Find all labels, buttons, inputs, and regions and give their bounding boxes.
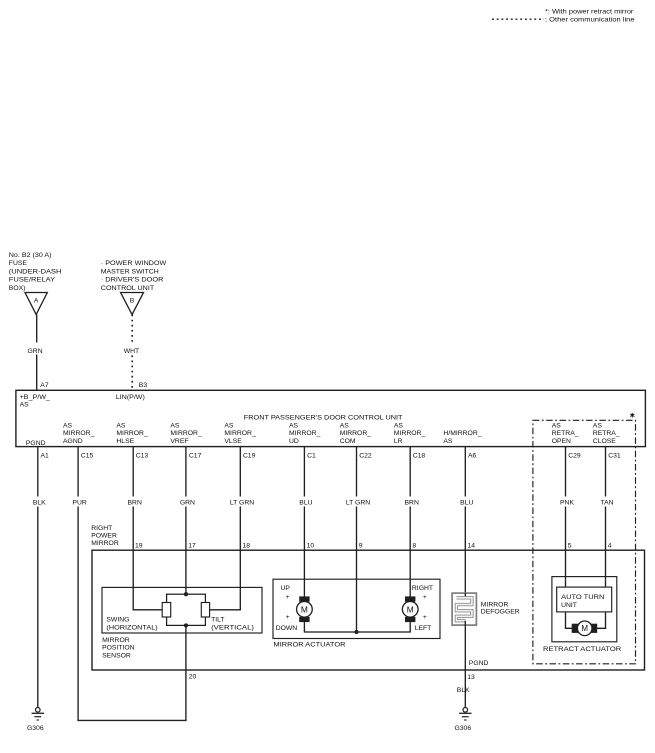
svg-text:AS: AS	[116, 423, 126, 430]
svg-text:MIRROR: MIRROR	[481, 601, 509, 608]
tilt potentiometer element	[201, 603, 209, 618]
svg-text:RIGHT: RIGHT	[412, 585, 433, 592]
svg-text:AGND: AGND	[63, 438, 83, 445]
svg-text:WHT: WHT	[124, 348, 139, 355]
wire BLU from C1 (UD) to up/down motor	[303, 447, 305, 597]
svg-text:(HORIZONTAL): (HORIZONTAL)	[106, 625, 157, 632]
connector triangle B (LIN line)	[121, 293, 144, 315]
svg-text:SENSOR: SENSOR	[102, 652, 131, 659]
svg-text:14: 14	[468, 543, 476, 550]
svg-text:LR: LR	[394, 438, 403, 445]
svg-text:GRN: GRN	[180, 500, 195, 507]
svg-text:(UNDER-DASH: (UNDER-DASH	[9, 268, 62, 275]
legend: other communication line note	[492, 18, 544, 20]
wire auto turn unit to retract motor right	[597, 612, 606, 628]
junction sensor common node	[184, 623, 188, 627]
svg-text:17: 17	[188, 543, 196, 550]
svg-text:MIRROR: MIRROR	[102, 637, 130, 644]
svg-text:A7: A7	[40, 382, 49, 389]
svg-text:CLOSE: CLOSE	[593, 438, 617, 445]
svg-text:C18: C18	[413, 453, 426, 460]
wire TAN from C31 to auto turn unit	[605, 447, 607, 587]
svg-text:B: B	[130, 297, 135, 304]
svg-text:+: +	[286, 594, 290, 601]
wire BRN from C18 (LR) to left/right motor	[409, 447, 411, 597]
right power mirror box	[92, 550, 645, 670]
retract motor M	[572, 624, 579, 633]
sensor potentiometer loop	[167, 594, 206, 625]
left/right motor M	[405, 596, 415, 601]
svg-text:MIRROR_: MIRROR_	[170, 430, 202, 437]
svg-text:UD: UD	[289, 438, 299, 445]
svg-text:FUSE: FUSE	[9, 260, 28, 267]
swing potentiometer element	[162, 603, 171, 618]
svg-text:UNIT: UNIT	[561, 602, 577, 609]
front passenger's door control unit box	[16, 390, 646, 446]
svg-text:PGND: PGND	[469, 660, 489, 667]
auto turn unit box	[557, 587, 612, 612]
junction actuator common	[354, 630, 358, 634]
connector triangle A (fuse feed)	[25, 293, 47, 315]
svg-text:BRN: BRN	[405, 500, 419, 507]
svg-text:C29: C29	[568, 453, 581, 460]
defogger heater element	[456, 598, 472, 621]
svg-text:RIGHT: RIGHT	[91, 525, 112, 532]
svg-text:C22: C22	[359, 453, 372, 460]
ground G306 (right)	[463, 708, 468, 713]
svg-text:MIRROR_: MIRROR_	[394, 430, 426, 437]
svg-text:C17: C17	[189, 453, 202, 460]
svg-text:AS: AS	[394, 423, 404, 430]
svg-text:M: M	[301, 604, 308, 614]
junction VREF node	[184, 592, 188, 596]
svg-text:*: With power retract mirror: *: With power retract mirror	[545, 9, 634, 16]
svg-text:13: 13	[467, 674, 475, 681]
svg-text:VLSE: VLSE	[224, 438, 242, 445]
svg-text:AS: AS	[224, 423, 234, 430]
wire GRN from C17 (VREF) to sensor top node	[185, 447, 187, 595]
mirror position sensor box	[102, 587, 262, 633]
svg-text:M: M	[581, 624, 588, 633]
svg-text:SWING: SWING	[106, 617, 129, 624]
svg-text:AS: AS	[593, 423, 603, 430]
retract actuator box	[552, 577, 617, 642]
svg-text:MIRROR_: MIRROR_	[116, 430, 148, 437]
svg-text:COM: COM	[340, 438, 356, 445]
wire GRN from fuse A to A7	[36, 315, 38, 391]
wire BLK from defogger through pin 13 to G306	[464, 621, 466, 708]
wire PNK from C29 to auto turn unit	[565, 447, 567, 587]
svg-text:POWER: POWER	[91, 533, 117, 540]
svg-text:TAN: TAN	[600, 500, 613, 507]
svg-text:LEFT: LEFT	[415, 625, 432, 632]
svg-text:AS: AS	[170, 423, 180, 430]
svg-text:C1: C1	[307, 453, 316, 460]
svg-text:C31: C31	[608, 453, 621, 460]
wire WHT dotted communication line from B to B3	[131, 315, 133, 391]
svg-text:PNK: PNK	[560, 500, 574, 507]
svg-text:LT GRN: LT GRN	[230, 500, 254, 507]
svg-text:AS: AS	[443, 438, 453, 445]
svg-text:· POWER WINDOW: · POWER WINDOW	[101, 260, 167, 267]
svg-text:CONTROL UNIT: CONTROL UNIT	[101, 285, 154, 292]
svg-text:20: 20	[189, 673, 197, 680]
svg-text:A: A	[34, 297, 39, 304]
svg-text:· DRIVER'S DOOR: · DRIVER'S DOOR	[101, 277, 164, 284]
svg-text:A1: A1	[41, 453, 50, 460]
svg-text:G306: G306	[454, 725, 471, 732]
svg-text:C19: C19	[243, 453, 256, 460]
svg-text:DEFOGGER: DEFOGGER	[481, 609, 520, 616]
svg-text:18: 18	[243, 543, 251, 550]
svg-text:FUSE/RELAY: FUSE/RELAY	[9, 277, 56, 284]
svg-text:MIRROR_: MIRROR_	[63, 430, 95, 437]
svg-text:MIRROR_: MIRROR_	[289, 430, 321, 437]
svg-text:MIRROR_: MIRROR_	[340, 430, 372, 437]
svg-text:(VERTICAL): (VERTICAL)	[211, 625, 254, 632]
svg-text:MASTER SWITCH: MASTER SWITCH	[101, 268, 159, 275]
svg-text:+: +	[423, 614, 427, 621]
svg-text:VREF: VREF	[170, 438, 188, 445]
svg-text:BLU: BLU	[460, 500, 473, 507]
svg-text:UP: UP	[281, 585, 291, 592]
ground G306 (left)	[36, 708, 41, 713]
wire BLU from A6 (H/MIRROR) to defogger	[464, 447, 466, 594]
svg-text:PUR: PUR	[72, 500, 86, 507]
svg-text:MIRROR ACTUATOR: MIRROR ACTUATOR	[274, 641, 346, 648]
wire auto turn unit to retract motor left	[566, 612, 573, 628]
wire PUR from C15 (AGND) around to sensor pin 20	[78, 447, 186, 721]
mirror defogger box	[452, 593, 476, 625]
svg-text:M: M	[407, 604, 414, 614]
svg-text:RETRA_: RETRA_	[593, 430, 620, 437]
svg-text:19: 19	[135, 543, 143, 550]
svg-text:: Other communication line: : Other communication line	[545, 17, 635, 24]
svg-text:LT GRN: LT GRN	[346, 500, 370, 507]
svg-text:AS: AS	[63, 423, 73, 430]
svg-text:A6: A6	[468, 453, 477, 460]
mirror actuator box	[273, 579, 440, 638]
wire LT GRN from C22 (COM) to actuator common	[356, 447, 358, 632]
svg-text:AUTO TURN: AUTO TURN	[561, 594, 604, 601]
svg-text:H/MIRROR_: H/MIRROR_	[443, 430, 481, 437]
svg-text:9: 9	[359, 543, 363, 550]
svg-text:PGND: PGND	[26, 440, 46, 447]
svg-text:AS: AS	[20, 402, 30, 409]
svg-text:+: +	[286, 614, 290, 621]
svg-text:AS: AS	[289, 423, 299, 430]
svg-text:BOX): BOX)	[9, 285, 26, 292]
svg-text:No. B2 (30 A): No. B2 (30 A)	[9, 252, 52, 259]
svg-text:AS: AS	[552, 423, 562, 430]
svg-text:TILT: TILT	[211, 617, 224, 624]
wire actuator common bus	[304, 622, 410, 632]
svg-text:+: +	[423, 594, 427, 601]
svg-text:G306: G306	[27, 725, 44, 732]
svg-text:BRN: BRN	[128, 500, 142, 507]
svg-text:C15: C15	[81, 453, 94, 460]
svg-text:RETRACT ACTUATOR: RETRACT ACTUATOR	[543, 646, 621, 653]
svg-text:+B_P/W_: +B_P/W_	[20, 394, 51, 401]
svg-text:B3: B3	[139, 382, 148, 389]
wire LT GRN from C19 (VLSE) to tilt wiper	[210, 447, 241, 610]
svg-text:C13: C13	[136, 453, 149, 460]
svg-text:POSITION: POSITION	[102, 645, 135, 652]
svg-text:BLU: BLU	[299, 500, 312, 507]
svg-text:BLK: BLK	[457, 687, 470, 694]
svg-text:RETRA_: RETRA_	[552, 430, 579, 437]
svg-text:MIRROR_: MIRROR_	[224, 430, 256, 437]
svg-text:BLK: BLK	[33, 500, 46, 507]
svg-text:5: 5	[568, 543, 572, 550]
svg-text:8: 8	[412, 543, 416, 550]
svg-text:MIRROR: MIRROR	[91, 540, 119, 547]
svg-text:DOWN: DOWN	[276, 625, 298, 632]
svg-text:LIN(P/W): LIN(P/W)	[116, 394, 145, 401]
wire BRN from C13 (HLSE) to swing wiper	[133, 447, 162, 610]
svg-text:HLSE: HLSE	[116, 438, 134, 445]
svg-text:AS: AS	[340, 423, 350, 430]
svg-text:10: 10	[307, 543, 315, 550]
dash-dot box: power retract mirror option	[533, 420, 636, 664]
wire BLK from A1 to G306	[37, 447, 39, 708]
svg-text:GRN: GRN	[28, 348, 43, 355]
wire into defogger element	[464, 593, 466, 598]
up/down motor M	[299, 596, 309, 601]
asterisk for power retract option	[630, 413, 634, 418]
svg-text:OPEN: OPEN	[552, 438, 571, 445]
svg-text:FRONT PASSENGER'S DOOR CONTROL: FRONT PASSENGER'S DOOR CONTROL UNIT	[244, 415, 403, 422]
svg-text:4: 4	[608, 543, 612, 550]
